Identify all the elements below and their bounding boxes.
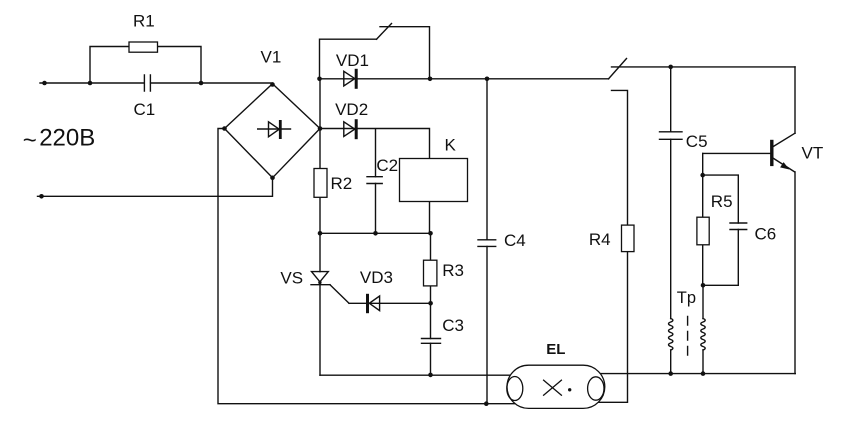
svg-text:VD3: VD3 — [360, 268, 393, 287]
svg-text:Tp: Tp — [677, 289, 696, 307]
svg-text:VD2: VD2 — [335, 100, 368, 119]
svg-text:C5: C5 — [686, 132, 708, 151]
svg-text:VD1: VD1 — [336, 51, 369, 70]
svg-text:C1: C1 — [134, 100, 156, 119]
svg-text:C2: C2 — [376, 156, 398, 175]
svg-text:K: K — [445, 136, 457, 155]
svg-text:R1: R1 — [133, 12, 155, 31]
svg-text:VS: VS — [280, 269, 303, 288]
svg-text:R3: R3 — [442, 261, 464, 280]
svg-text:R4: R4 — [589, 230, 611, 249]
svg-text:R2: R2 — [331, 174, 353, 193]
svg-text:~220В: ~220В — [23, 125, 96, 155]
svg-text:C4: C4 — [504, 231, 526, 250]
svg-text:C6: C6 — [755, 225, 777, 244]
svg-text:R5: R5 — [711, 192, 733, 211]
svg-text:EL: EL — [546, 341, 565, 358]
svg-text:V1: V1 — [261, 48, 282, 67]
svg-text:VT: VT — [802, 144, 824, 163]
svg-text:C3: C3 — [442, 316, 464, 335]
